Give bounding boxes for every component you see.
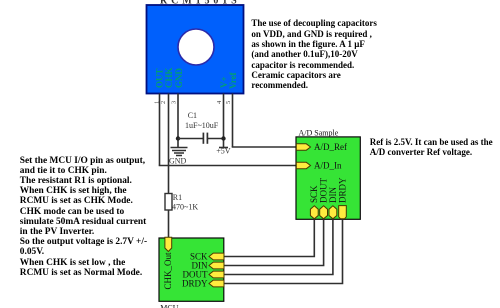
pin number 5 <box>225 101 232 104</box>
svg-text:+5V: +5V <box>216 147 231 156</box>
svg-text:3: 3 <box>171 101 178 104</box>
wire OUT vertical (pin1) <box>159 94 161 166</box>
ground symbol <box>171 148 188 156</box>
MCU block <box>159 238 224 301</box>
wire DIN net <box>224 219 324 265</box>
capacitor C1 left lead <box>178 138 203 140</box>
junction node at +5V <box>221 136 225 140</box>
pin DOUT arrow (MCU) <box>209 271 224 278</box>
pin DOUT bottom arrow (A/D) <box>320 206 328 219</box>
pin DRDY bottom arrow (A/D) <box>339 206 347 219</box>
svg-text:4: 4 <box>216 100 223 104</box>
wire V+ vertical (pin4) <box>223 94 225 148</box>
note: A/D reference voltage paragraph <box>370 138 493 158</box>
svg-text:MCU: MCU <box>160 303 178 308</box>
svg-text:R1: R1 <box>173 193 182 202</box>
pin A/D_In (yellow arrow) <box>296 162 310 168</box>
svg-text:CHK: CHK <box>164 67 174 88</box>
label DIN (MCU) <box>192 261 208 271</box>
svg-text:DIN: DIN <box>328 187 338 203</box>
label A/D_In <box>314 161 342 171</box>
label MCU <box>160 303 178 308</box>
RCMU sensor body U1 (blue box) <box>147 5 244 94</box>
note: left MCU/CHK explanation paragraph <box>20 156 147 278</box>
label +5V <box>216 147 231 156</box>
svg-text:SCK: SCK <box>309 185 319 203</box>
pin label CHK_Out (rotated) <box>163 252 173 290</box>
pin label DOUT (A/D, rotated) <box>319 178 329 203</box>
label A/D_Ref <box>314 142 347 152</box>
label C1 <box>188 111 197 120</box>
svg-text:2: 2 <box>160 101 167 104</box>
pin label SCK (A/D, rotated) <box>309 185 319 203</box>
sensor aperture (white circle) <box>178 29 214 65</box>
pin name V+ <box>219 76 229 88</box>
svg-text:GND: GND <box>169 157 187 166</box>
svg-text:470~1K: 470~1K <box>172 202 198 211</box>
pin label DRDY (A/D, rotated) <box>337 177 347 203</box>
svg-text:CHK_Out: CHK_Out <box>163 252 173 290</box>
pin CHK_Out top arrow (MCU) <box>165 237 172 251</box>
pin number 2 <box>160 101 167 104</box>
capacitor C1 plates <box>203 133 207 144</box>
svg-text:5: 5 <box>225 101 232 104</box>
RCMU part title (clipped at top of image) <box>160 0 241 6</box>
pin name OUT <box>155 68 165 88</box>
note: decoupling capacitor paragraph <box>251 18 377 91</box>
pin number 3 <box>171 101 178 104</box>
svg-text:A/D_Ref: A/D_Ref <box>314 142 347 152</box>
pin name GND <box>174 68 184 89</box>
wire CHK vertical (pin2) to R1 <box>168 94 170 194</box>
value 1uF~10uF <box>185 121 219 130</box>
svg-text:A/D_In: A/D_In <box>314 161 342 171</box>
svg-text:DRDY: DRDY <box>182 279 208 289</box>
label SCK (MCU) <box>190 252 208 262</box>
pin SCK arrow (MCU) <box>209 253 224 260</box>
label DOUT (MCU) <box>183 270 208 280</box>
svg-text:C1: C1 <box>188 111 197 120</box>
pin label DIN (A/D, rotated) <box>328 187 338 203</box>
wire DRDY net <box>224 219 343 283</box>
pin number 4 <box>216 100 223 104</box>
junction node at GND/C1 <box>176 136 180 140</box>
wire SCK net <box>224 219 314 256</box>
label A/D Sample <box>299 129 339 138</box>
wire DOUT net <box>224 219 333 274</box>
pin name Vref <box>228 71 238 89</box>
svg-text:1uF~10uF: 1uF~10uF <box>185 121 219 130</box>
pin DIN arrow (MCU) <box>209 262 224 269</box>
svg-text:A/D Sample: A/D Sample <box>299 129 339 138</box>
label R1 <box>173 193 182 202</box>
svg-text:Vref: Vref <box>228 71 238 89</box>
+5V power bar <box>219 147 228 149</box>
resistor R1 <box>165 194 172 211</box>
wire OUT horizontal to A/D_In <box>159 165 296 167</box>
wire R1 to MCU CHK_Out pin <box>168 210 170 238</box>
pin DRDY arrow (MCU) <box>209 280 224 287</box>
A/D Sample block <box>296 137 360 219</box>
wire GND vertical (pin3) <box>177 94 179 148</box>
pin number 1 <box>153 101 160 104</box>
pin A/D_Ref (yellow arrow) <box>296 144 310 150</box>
label GND <box>169 157 187 166</box>
svg-text:GND: GND <box>174 68 184 89</box>
value 470~1K <box>172 202 198 211</box>
wire Vref vertical (pin5) <box>232 94 234 148</box>
wire Vref horizontal to A/D_Ref <box>232 146 296 148</box>
pin name CHK <box>164 67 174 88</box>
pin SCK bottom arrow (A/D) <box>310 206 318 219</box>
capacitor C1 right lead <box>207 138 223 140</box>
pin DIN bottom arrow (A/D) <box>329 206 337 219</box>
svg-text:DRDY: DRDY <box>337 177 347 203</box>
svg-text:OUT: OUT <box>155 68 165 88</box>
label DRDY (MCU) <box>182 279 208 289</box>
